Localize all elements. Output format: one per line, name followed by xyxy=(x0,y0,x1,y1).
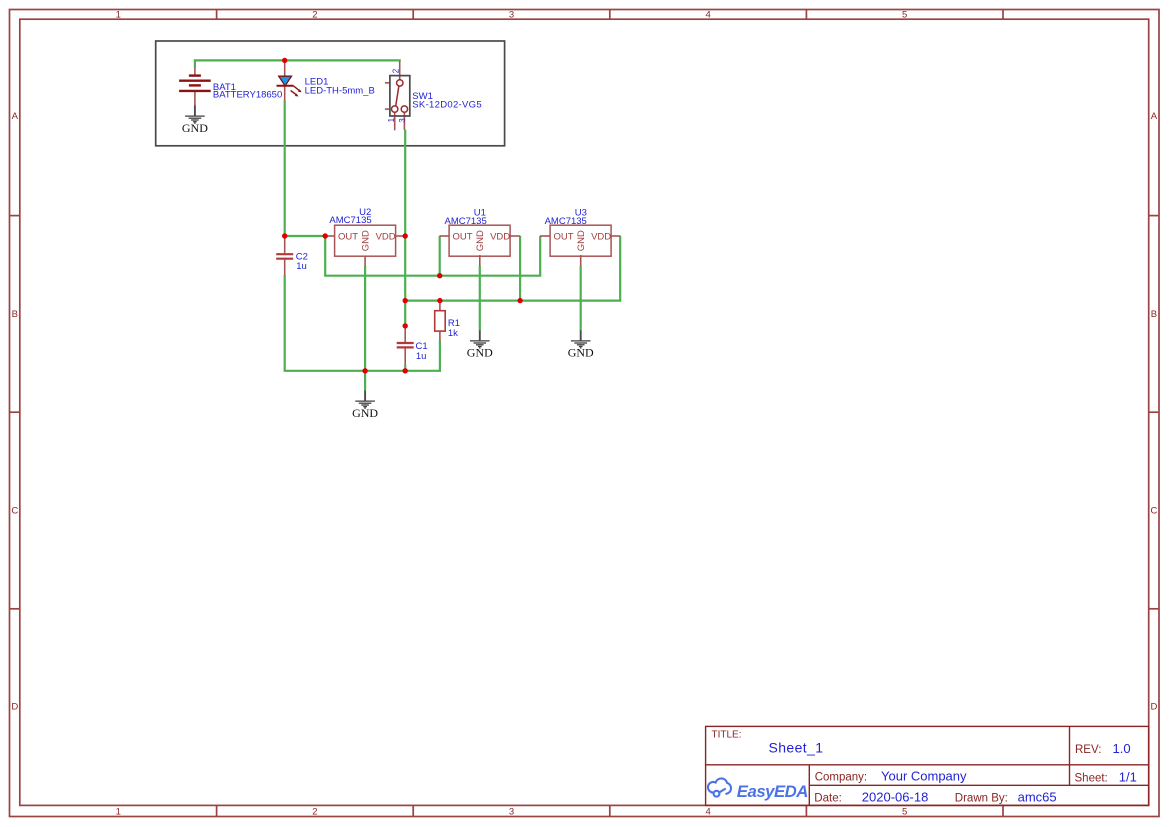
pin U2 OUT xyxy=(325,235,335,237)
junction dots xyxy=(282,58,523,374)
ground symbol at BAT1 xyxy=(182,105,208,134)
pin C2 bottom xyxy=(284,260,286,276)
svg-text:AMC7135: AMC7135 xyxy=(445,216,487,227)
svg-text:4: 4 xyxy=(705,10,710,21)
ground symbol at U2 xyxy=(352,391,378,420)
svg-text:GND: GND xyxy=(568,346,594,360)
junction U2 VDD node xyxy=(403,233,408,238)
svg-text:EasyEDA: EasyEDA xyxy=(737,782,808,801)
wire U2 GND down to ground xyxy=(364,266,366,391)
svg-text:OUT: OUT xyxy=(554,231,574,242)
wire VDD bus to U3 VDD xyxy=(405,236,620,301)
svg-text:A: A xyxy=(12,111,19,122)
pin C1 bottom xyxy=(404,348,406,365)
pin SW1 1 xyxy=(394,112,396,130)
svg-text:VDD: VDD xyxy=(591,231,611,242)
title block xyxy=(706,726,1149,805)
pin C1 top xyxy=(404,326,406,342)
svg-text:1u: 1u xyxy=(416,351,427,362)
pin R1 top xyxy=(439,301,441,311)
svg-text:B: B xyxy=(12,309,18,320)
svg-text:AMC7135: AMC7135 xyxy=(329,215,371,226)
wire U2 OUT down, bus to U3 OUT xyxy=(325,236,540,276)
svg-text:GND: GND xyxy=(352,406,378,420)
LED LED1 xyxy=(277,76,302,96)
svg-text:GND: GND xyxy=(467,346,493,360)
svg-text:5: 5 xyxy=(902,807,907,818)
pin U3 GND xyxy=(580,255,582,266)
svg-text:Date:: Date: xyxy=(814,793,842,805)
junction U2 GND / bottom bus xyxy=(362,368,367,373)
svg-text:Sheet_1: Sheet_1 xyxy=(769,740,824,756)
svg-text:2020-06-18: 2020-06-18 xyxy=(862,790,929,805)
svg-text:D: D xyxy=(1150,702,1157,713)
pin SW1 left stub bottom xyxy=(385,108,390,110)
wire C1 bottom stub xyxy=(404,365,406,371)
wire top bus BAT1 to SW1 pin2 xyxy=(195,60,400,67)
svg-text:B: B xyxy=(1151,309,1157,320)
pin SW1 left stub top xyxy=(385,82,390,84)
junction C1 bottom / bottom bus xyxy=(403,368,408,373)
svg-text:REV:: REV: xyxy=(1075,744,1101,756)
pin U2 VDD xyxy=(396,235,406,237)
IC U1 AMC7135 xyxy=(449,225,510,256)
svg-text:LED-TH-5mm_B: LED-TH-5mm_B xyxy=(305,86,375,97)
svg-text:3: 3 xyxy=(509,10,514,21)
junction C1 top pin xyxy=(403,323,408,328)
wire LED1 cathode down to node xyxy=(284,101,286,237)
svg-text:2: 2 xyxy=(312,807,317,818)
pin LED1 cathode xyxy=(284,86,286,101)
junction U1 OUT / OUT bus xyxy=(437,273,442,278)
svg-text:GND: GND xyxy=(361,230,372,251)
svg-text:1.0: 1.0 xyxy=(1113,741,1131,756)
switch SW1 xyxy=(390,76,410,116)
svg-text:TITLE:: TITLE: xyxy=(712,730,742,741)
ground symbol at U3 xyxy=(568,330,594,359)
IC U2 AMC7135 xyxy=(335,225,396,256)
wire U1 OUT down xyxy=(439,236,441,276)
capacitor C1 xyxy=(397,343,414,347)
svg-text:3: 3 xyxy=(509,807,514,818)
IC U3 AMC7135 xyxy=(550,225,611,256)
svg-text:1: 1 xyxy=(387,117,396,122)
wire U3 GND down xyxy=(580,266,582,331)
junction C2 / node to U2 OUT xyxy=(282,233,287,238)
pin BAT1 - xyxy=(194,91,196,106)
green wires xyxy=(195,60,620,390)
svg-text:VDD: VDD xyxy=(376,231,396,242)
svg-text:VDD: VDD xyxy=(490,231,510,242)
wire U2 VDD down to C1 xyxy=(404,236,406,326)
svg-text:5: 5 xyxy=(902,10,907,21)
svg-text:Drawn By:: Drawn By: xyxy=(955,793,1008,805)
svg-text:1k: 1k xyxy=(448,328,458,339)
svg-text:1: 1 xyxy=(116,807,121,818)
svg-text:OUT: OUT xyxy=(338,231,358,242)
svg-text:Your Company: Your Company xyxy=(881,768,967,783)
battery BAT1 xyxy=(179,76,211,91)
component pin stubs xyxy=(195,60,621,365)
svg-text:4: 4 xyxy=(705,807,710,818)
junction U1 VDD / VDD bus xyxy=(517,298,522,303)
svg-text:3: 3 xyxy=(398,118,407,123)
svg-text:1: 1 xyxy=(116,10,121,21)
svg-text:1u: 1u xyxy=(296,261,307,272)
pin BAT1 + xyxy=(194,67,196,76)
svg-text:amc65: amc65 xyxy=(1018,790,1057,805)
svg-text:2: 2 xyxy=(391,68,400,73)
svg-text:AMC7135: AMC7135 xyxy=(545,216,587,227)
wire node C2 to U2 OUT xyxy=(285,235,326,237)
pin U1 VDD xyxy=(511,235,521,237)
junction U2 OUT node xyxy=(323,233,328,238)
pin SW1 2 xyxy=(399,61,401,80)
svg-text:Sheet:: Sheet: xyxy=(1075,773,1108,785)
wire U1 VDD down xyxy=(519,236,521,301)
schematic enclosure box xyxy=(156,41,505,146)
pin U1 GND xyxy=(479,255,481,266)
resistor R1 xyxy=(435,311,446,331)
pin C2 top xyxy=(284,236,286,253)
svg-text:GND: GND xyxy=(182,121,208,135)
svg-text:D: D xyxy=(11,702,18,713)
svg-text:BATTERY18650: BATTERY18650 xyxy=(213,89,282,100)
ground symbol at U1 xyxy=(467,330,493,359)
pin U1 OUT xyxy=(440,235,450,237)
wire U1 GND down xyxy=(479,266,481,331)
svg-text:2: 2 xyxy=(312,10,317,21)
pin R1 bottom xyxy=(439,331,441,341)
pin U2 GND xyxy=(364,256,366,266)
pin U3 OUT xyxy=(540,235,550,237)
svg-text:C: C xyxy=(1150,506,1157,517)
pin U3 VDD xyxy=(611,235,620,237)
wire SW1 pin3 down to U2 VDD node xyxy=(404,130,406,236)
junction R1 top / VDD bus xyxy=(437,298,442,303)
svg-text:C: C xyxy=(11,506,18,517)
EasyEDA logo xyxy=(708,778,808,801)
pin LED1 anode xyxy=(284,60,286,76)
svg-text:A: A xyxy=(1151,111,1158,122)
capacitor C2 xyxy=(276,254,293,259)
wire bottom bus C2 to R1 xyxy=(285,275,440,371)
svg-text:GND: GND xyxy=(475,230,486,251)
svg-text:OUT: OUT xyxy=(453,231,473,242)
pin SW1 3 xyxy=(403,112,405,130)
svg-text:SK-12D02-VG5: SK-12D02-VG5 xyxy=(412,99,482,110)
svg-text:GND: GND xyxy=(576,230,587,251)
svg-text:Company:: Company: xyxy=(815,771,867,783)
svg-text:1/1: 1/1 xyxy=(1119,770,1137,785)
junction LED1 anode / top bus xyxy=(282,58,287,63)
junction C1 branch / VDD bus xyxy=(403,298,408,303)
